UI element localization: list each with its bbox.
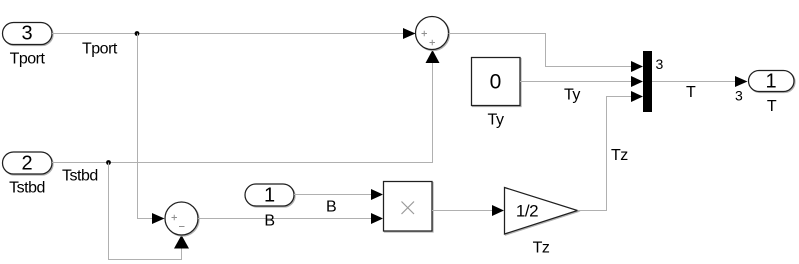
sum U2 (Subtract) bottom [165, 202, 198, 235]
wire Ty: constant 0 to mux input 2 [520, 76, 643, 104]
wire Tstbd: inport 2 to sum U1 bottom input [52, 50, 440, 185]
svg-text:T: T [767, 98, 777, 115]
mux (3 inputs) [643, 51, 664, 112]
svg-text:2: 2 [21, 153, 32, 175]
constant B value 1 [245, 184, 294, 230]
constant Ty value 0 [472, 58, 521, 129]
inport 3 Tport [3, 23, 53, 68]
wire Tz: gain output to mux input 3 [578, 91, 644, 211]
wire T: mux output to outport 1 [652, 76, 748, 104]
wire: sum U2 output to product bottom input [198, 213, 383, 224]
svg-text:3: 3 [656, 56, 664, 72]
svg-text:0: 0 [490, 71, 502, 94]
wire: Tstbd junction down and around to sum U2 bottom input [109, 163, 190, 260]
inport 2 Tstbd [3, 152, 53, 197]
svg-text:Tstbd: Tstbd [62, 168, 98, 185]
wire Tport: inport 3 to sum U1 left input [52, 28, 416, 58]
svg-text:Tport: Tport [82, 41, 118, 58]
wire B: constant 1 to product top input [294, 189, 383, 216]
svg-text:Tz: Tz [533, 240, 550, 257]
outport 1 T [749, 71, 795, 116]
svg-text:Tstbd: Tstbd [9, 180, 45, 197]
svg-text:B: B [264, 213, 274, 230]
wire: product output to gain input [432, 205, 504, 216]
svg-text:1: 1 [765, 71, 776, 93]
gain Tz value 1/2 [505, 188, 578, 257]
product (multiply) block [384, 182, 433, 232]
svg-text:Tz: Tz [611, 147, 628, 164]
svg-text:3: 3 [735, 88, 743, 104]
sum U1 (Add) top [416, 17, 449, 50]
junction node on Tstbd wire [106, 160, 111, 165]
svg-text:B: B [326, 199, 336, 216]
svg-text:3: 3 [21, 23, 32, 45]
svg-text:Ty: Ty [488, 112, 504, 129]
svg-text:T: T [686, 84, 696, 101]
wire: Tport junction down to sum U2 left input [138, 34, 165, 225]
junction node on Tport wire [135, 31, 140, 36]
svg-text:Ty: Ty [564, 87, 580, 104]
svg-text:1/2: 1/2 [516, 202, 538, 221]
svg-text:Tport: Tport [10, 51, 46, 68]
svg-text:1: 1 [264, 185, 275, 207]
wire: sum U1 output to mux input 1 [449, 34, 644, 73]
